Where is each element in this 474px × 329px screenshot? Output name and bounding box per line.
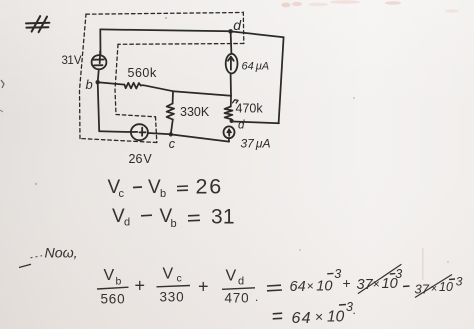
wire: bottom left (corner to V2) — [99, 130, 131, 133]
svg-text:+: + — [135, 276, 146, 296]
svg-text:×: × — [307, 279, 314, 293]
equation 1: Vc - Vb = 26 — [108, 175, 224, 201]
svg-text:10: 10 — [316, 279, 332, 295]
voltage source V1 31V — [92, 51, 107, 69]
svg-text:d: d — [238, 120, 245, 132]
svg-text:+: + — [198, 277, 209, 297]
wire: V2 to node c — [148, 133, 171, 134]
dashed boundary: bottom — [80, 139, 157, 143]
circuit labels — [62, 17, 271, 166]
svg-text:V: V — [163, 266, 174, 283]
svg-text:64: 64 — [290, 279, 306, 295]
svg-text:3: 3 — [334, 267, 341, 281]
svg-text:×: × — [315, 309, 323, 325]
svg-text:d: d — [124, 217, 130, 229]
dashed boundary: inner right — [156, 117, 157, 143]
node equation: fractions — [97, 264, 463, 327]
current source I2 37uA — [224, 126, 235, 138]
minus — [403, 285, 410, 288]
svg-text:b: b — [160, 188, 166, 200]
svg-text:V: V — [104, 267, 115, 284]
tick before Now — [19, 264, 31, 267]
svg-text:c: c — [169, 137, 176, 151]
svg-text:560: 560 — [101, 292, 126, 307]
dashed boundary: inner bottom — [116, 115, 156, 117]
wire: junction A to R3 top (middle wire right part) — [173, 91, 231, 96]
svg-text:31V: 31V — [62, 55, 82, 67]
svg-text:.: . — [353, 303, 356, 317]
wire: node c to I2 bottom — [171, 134, 229, 141]
svg-text:26V: 26V — [129, 152, 153, 166]
svg-text:470: 470 — [225, 291, 250, 306]
wire: top (left corner to node d) — [100, 29, 230, 31]
svg-text:b: b — [116, 276, 122, 288]
svg-text:c: c — [119, 188, 125, 200]
svg-text:Nοω,: Nοω, — [45, 246, 78, 262]
svg-text:10: 10 — [327, 309, 345, 326]
svg-text:330: 330 — [160, 290, 185, 305]
equals — [267, 285, 282, 291]
junction B hook mark — [233, 100, 238, 103]
dashed boundary: outer left — [80, 14, 87, 139]
wire: right loop vertical — [279, 37, 284, 123]
svg-text:470k: 470k — [236, 102, 264, 116]
dashed boundary: inner left — [115, 44, 118, 114]
wire: I2 to bottom wire — [228, 138, 230, 142]
svg-text:3: 3 — [395, 267, 402, 281]
resistor R2 330k with leads — [167, 91, 175, 134]
problem number mark — [26, 16, 49, 32]
resistor R1 560k with leads — [98, 82, 173, 91]
svg-text:560k: 560k — [128, 65, 157, 80]
word Now, — [19, 246, 78, 268]
dashed boundary: outer right jog — [242, 12, 245, 44]
svg-text:64μA: 64μA — [242, 61, 270, 73]
svg-text:64: 64 — [292, 310, 312, 327]
svg-text:37μA: 37μA — [241, 137, 271, 151]
resistor R3 470k with leads — [225, 96, 233, 121]
wire: node b down to bottom-left corner — [98, 82, 100, 131]
svg-text:31: 31 — [211, 206, 235, 229]
wire: I1 to junction B — [230, 73, 232, 96]
svg-text:c: c — [177, 273, 182, 285]
equation 2: Vd - Vb = 31 — [112, 206, 235, 231]
wire: right loop bottom (to lower node d) — [233, 122, 279, 124]
svg-text:37: 37 — [415, 282, 430, 297]
svg-text:b: b — [86, 77, 93, 92]
node b — [96, 80, 100, 84]
result line = 64x10^-3 — [273, 313, 283, 319]
svg-text:V: V — [226, 268, 237, 285]
voltage source V2 26V — [131, 124, 148, 140]
svg-text:3: 3 — [456, 275, 463, 289]
dashed boundary: outer top — [86, 13, 242, 15]
node d (top) — [228, 29, 233, 34]
current source I1 64uA — [226, 54, 238, 74]
svg-text:b: b — [171, 218, 177, 230]
wire: left top (corner down to V1) — [99, 29, 101, 55]
svg-text:26: 26 — [196, 175, 224, 199]
node c — [169, 132, 173, 136]
wire: node d to I1 — [230, 31, 233, 53]
dashed boundary: inner top — [118, 43, 244, 46]
node d (lower) — [230, 119, 234, 123]
svg-text:+: + — [343, 275, 351, 291]
svg-text:.: . — [255, 290, 258, 304]
svg-text:d: d — [233, 17, 242, 33]
svg-text:10: 10 — [439, 280, 453, 294]
svg-text:330K: 330K — [180, 105, 210, 119]
wire: right loop top (node d to right corner) — [231, 31, 284, 37]
svg-text:d: d — [238, 276, 244, 288]
wire: V1 to node b — [98, 69, 99, 82]
